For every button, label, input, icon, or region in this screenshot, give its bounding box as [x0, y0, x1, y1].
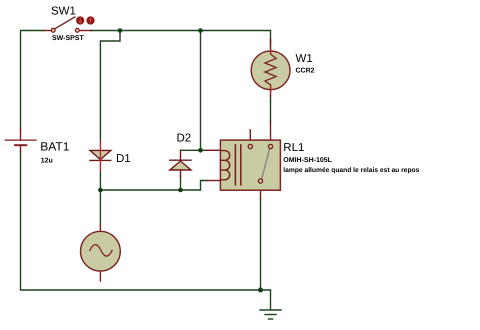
- svg-text:lampe allumée quand le relais: lampe allumée quand le relais est au rep…: [283, 167, 419, 174]
- svg-text:12u: 12u: [41, 158, 53, 165]
- svg-text:BAT1: BAT1: [40, 140, 69, 154]
- svg-text:OMIH-SH-105L: OMIH-SH-105L: [283, 157, 332, 164]
- svg-text:SW-SPST: SW-SPST: [52, 35, 84, 42]
- svg-text:CCR2: CCR2: [296, 68, 315, 75]
- svg-text:D1: D1: [116, 153, 131, 165]
- svg-text:W1: W1: [296, 53, 313, 65]
- svg-text:D2: D2: [177, 133, 192, 145]
- svg-text:RL1: RL1: [283, 142, 304, 154]
- svg-text:SW1: SW1: [51, 6, 76, 18]
